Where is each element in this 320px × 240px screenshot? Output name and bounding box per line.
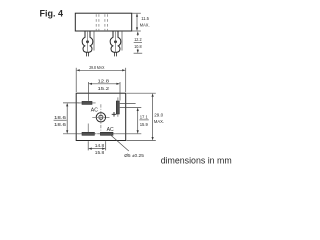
svg-text:18.6: 18.6 — [54, 122, 66, 128]
svg-text:12.8: 12.8 — [98, 78, 110, 84]
svg-text:15.8: 15.8 — [95, 150, 105, 156]
svg-text:AC: AC — [107, 127, 114, 133]
pin lead B (side view, crimped) — [110, 31, 121, 52]
dimension 12.8/15.2 (pin offset) — [88, 82, 120, 101]
dimension 29.0 MAX (right height) — [127, 93, 156, 140]
pin B far lead edge — [121, 31, 123, 51]
label plus — [112, 112, 117, 117]
terminal pin AC bottom-center — [100, 132, 113, 135]
dimension 17.1/15.9 (right, pin to pin) — [116, 103, 142, 133]
svg-text:15.2: 15.2 — [98, 86, 110, 92]
top view package square — [76, 93, 126, 140]
svg-text:29.0: 29.0 — [154, 112, 163, 118]
svg-text:dimensions in mm: dimensions in mm — [161, 156, 232, 166]
pin center tick — [87, 124, 89, 133]
svg-text:14.8: 14.8 — [95, 143, 105, 149]
terminal pin bottom-left — [82, 132, 94, 135]
side view package body — [75, 13, 131, 31]
pin lead A (side view, crimped) — [82, 31, 93, 52]
svg-text:MAX.: MAX. — [154, 119, 164, 125]
hidden hole dashed lines in side view — [96, 14, 107, 30]
leader line for hole diameter — [111, 136, 129, 151]
pin B rivet dot — [114, 40, 117, 43]
pin A rivet dot — [86, 40, 89, 43]
svg-text:17.1: 17.1 — [140, 114, 148, 120]
pin A far lead edge — [93, 31, 95, 51]
svg-text:MAX.: MAX. — [140, 22, 150, 28]
svg-text:11.5: 11.5 — [141, 16, 149, 22]
svg-text:Ø5 ±0.25: Ø5 ±0.25 — [124, 153, 144, 159]
dimension 12.2/10.8 (lead length) — [137, 31, 139, 34]
hole vertical centerline — [100, 104, 102, 131]
pin A centerline — [87, 31, 89, 52]
svg-text:29.8 MAX: 29.8 MAX — [89, 65, 105, 71]
dimension 14.8/15.8 (bottom pin spacing) — [88, 141, 106, 150]
dimension 11.5 MAX (side view height) — [132, 13, 141, 31]
dimension 18.6/19.6 (left pin spacing) — [63, 103, 80, 134]
svg-text:Fig. 4: Fig. 4 — [40, 8, 64, 18]
svg-text:AC: AC — [91, 107, 98, 113]
svg-text:15.9: 15.9 — [140, 122, 148, 128]
hole horizontal centerline — [92, 116, 109, 118]
dimension 29.8 MAX (top width) — [76, 68, 126, 92]
pin B centerline — [115, 31, 117, 52]
mounting hole (ring) — [96, 113, 105, 122]
terminal pin plus (right) — [116, 101, 119, 114]
terminal pin AC top-left — [82, 101, 92, 104]
